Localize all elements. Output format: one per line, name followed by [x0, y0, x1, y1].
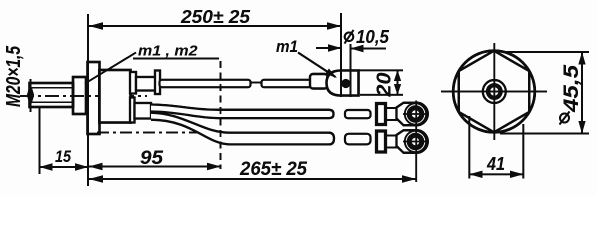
- extension line at flange face x=88: [87, 14, 89, 186]
- capillary tube segment 2: [262, 80, 312, 87]
- dimension M20x1,5: [27, 79, 34, 112]
- cable 1 (upper): [151, 105, 334, 119]
- label d45,5 (rotated): [560, 65, 584, 125]
- capillary tube segment 1: [160, 80, 251, 87]
- svg-text:250± 25: 250± 25: [180, 6, 251, 27]
- svg-text:10,5: 10,5: [356, 27, 390, 47]
- main axis centerline: [20, 95, 147, 97]
- label m1 with leader: [298, 53, 336, 78]
- cable 1 wire end: [345, 110, 371, 118]
- collar: [73, 77, 86, 114]
- extension verticals through element (d10.5): [340, 13, 342, 97]
- dimension 95: [88, 163, 221, 170]
- dimension d10,5: [316, 44, 386, 52]
- svg-text:41: 41: [486, 153, 505, 174]
- tube axis centerline: [152, 82, 361, 84]
- end view center circles: [483, 80, 506, 103]
- sensing element bulb m1: [327, 71, 359, 96]
- end view hexagon: [459, 51, 530, 133]
- svg-text:M20×1,5: M20×1,5: [3, 45, 25, 107]
- label m1,m2 with leader: [85, 53, 219, 84]
- ring terminal 1: [377, 103, 430, 126]
- threaded stud M20x1.5: [30, 83, 74, 107]
- ferrule: [310, 74, 328, 89]
- upper tube fitting: [130, 72, 136, 94]
- svg-text:45,5: 45,5: [560, 65, 583, 114]
- ring terminal 2: [377, 130, 430, 153]
- lower cable fitting: [130, 98, 135, 123]
- dimension 41: [469, 116, 523, 179]
- svg-text:20: 20: [374, 73, 396, 98]
- cable 2 wire end: [345, 134, 371, 145]
- svg-text:15: 15: [55, 147, 71, 166]
- hex flange: [88, 62, 100, 134]
- svg-text:m1: m1: [276, 37, 298, 56]
- dimension 20: [359, 70, 403, 95]
- svg-text:95: 95: [140, 147, 164, 169]
- lower outlet axis centerline: [97, 132, 203, 134]
- svg-text:m1 , m2: m1 , m2: [138, 43, 198, 60]
- dimension 265+-25: [88, 175, 416, 183]
- diameter symbol: [345, 30, 354, 44]
- end view outer circle: [453, 51, 535, 133]
- svg-text:265± 25: 265± 25: [239, 159, 307, 180]
- dashed extension from m1,m2 shelf: [220, 61, 222, 169]
- cable 2 (lower): [151, 113, 334, 145]
- dimension 250+-25: [88, 22, 341, 30]
- dimension d45,5: [500, 52, 589, 134]
- dimension 15: [40, 106, 89, 174]
- end view crosshair: [441, 91, 547, 93]
- body: [100, 70, 131, 123]
- center dot on element: [341, 79, 350, 88]
- extension line through terminals x=416: [415, 101, 417, 183]
